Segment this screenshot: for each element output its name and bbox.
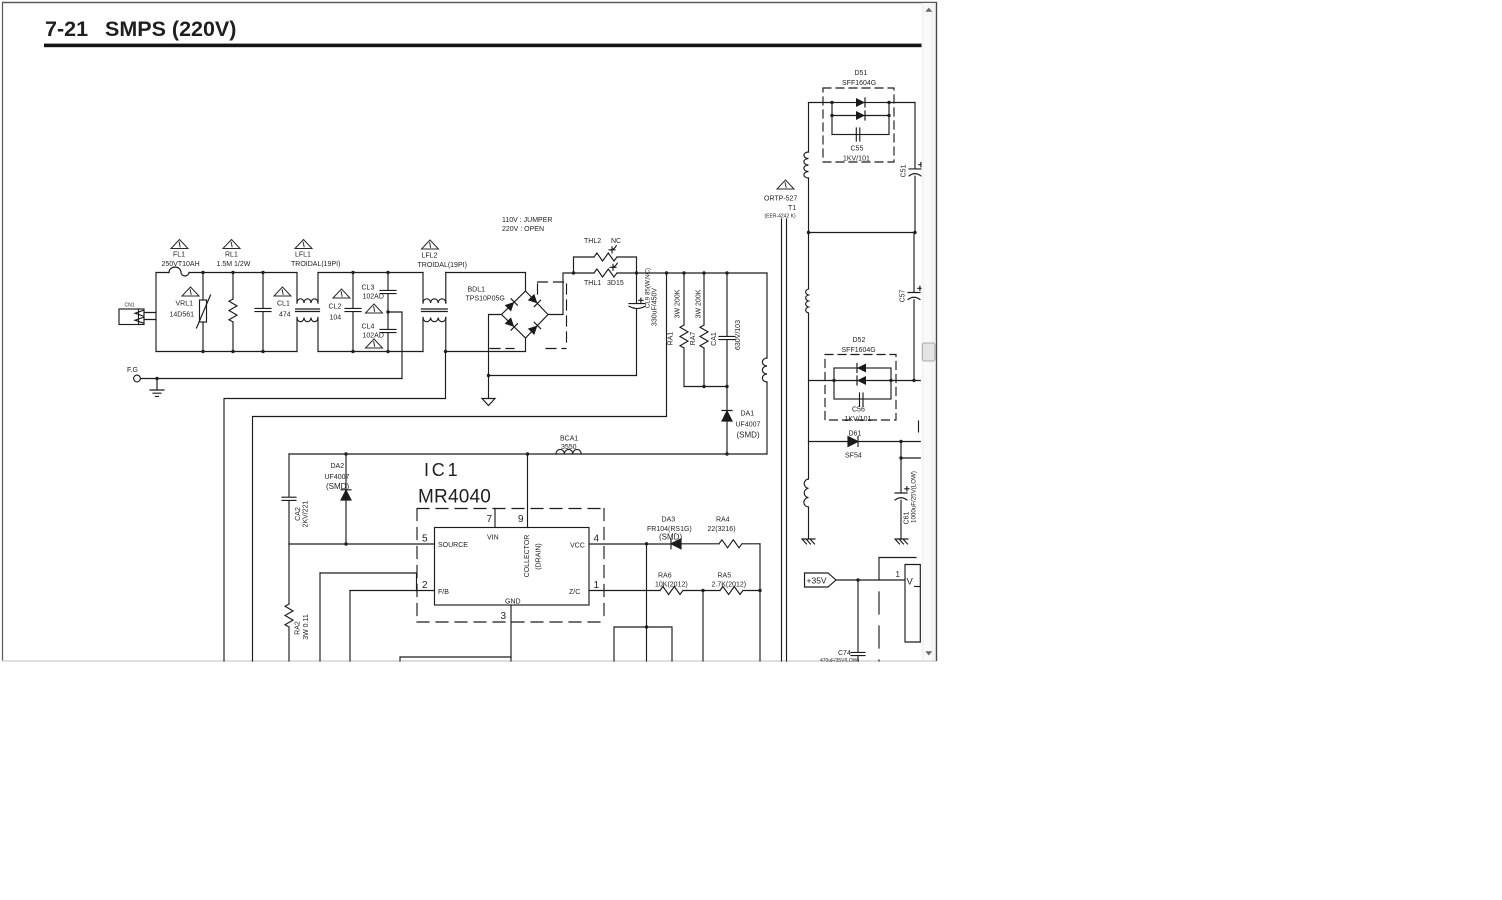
IC1 MR4040 body: [435, 528, 590, 606]
wire AC top to bridge: [525, 273, 527, 292]
svg-text:4: 4: [594, 534, 600, 545]
svg-text:BDL1: BDL1: [468, 287, 486, 294]
svg-text:9: 9: [518, 514, 524, 525]
diode pack D51 frame: [832, 103, 889, 135]
wire neutral return to bottom left: [224, 352, 446, 662]
thermistor THL2: [574, 257, 595, 273]
svg-text:SFF1604G: SFF1604G: [842, 80, 876, 87]
svg-text:630V/103: 630V/103: [735, 320, 742, 350]
scrollbar down arrow: [925, 651, 932, 655]
svg-text:CA1: CA1: [711, 332, 718, 346]
svg-text:CL1: CL1: [277, 301, 290, 308]
wire DC minus rail to CL9: [489, 375, 637, 377]
svg-text:10K(2012): 10K(2012): [655, 582, 688, 589]
flag +35V: [805, 573, 837, 587]
scrollbar thumb: [922, 343, 935, 361]
wire F/B upper branch: [320, 573, 417, 591]
svg-text:RA2: RA2: [295, 621, 302, 635]
connector box P805: [905, 565, 920, 643]
svg-text:3: 3: [501, 611, 507, 622]
svg-text:DA2: DA2: [331, 463, 345, 470]
pin 7 VIN stub: [494, 509, 496, 528]
diode DA2: [345, 454, 347, 490]
chassis ground C61: [895, 539, 908, 544]
svg-text:C51: C51: [901, 164, 908, 177]
warning triangle CL3: [366, 304, 383, 313]
dash mark right edge: [918, 421, 920, 432]
svg-text:BCA1: BCA1: [560, 436, 578, 443]
svg-text:THL1: THL1: [584, 280, 601, 287]
transformer T1 secondary winding 2: [808, 233, 810, 290]
svg-text:COLLECTOR: COLLECTOR: [524, 535, 531, 578]
svg-text:LFL2: LFL2: [422, 253, 438, 260]
svg-text:2KV/221: 2KV/221: [303, 500, 310, 527]
wire D51 output: [889, 102, 915, 104]
svg-text:C74: C74: [838, 650, 851, 657]
resistor RA1: [680, 273, 688, 387]
resistor RA7: [700, 273, 708, 387]
svg-text:F/B: F/B: [438, 589, 449, 596]
svg-text:102AD: 102AD: [363, 294, 384, 301]
svg-text:C57: C57: [900, 289, 907, 302]
wire RA6 node vertical: [702, 591, 704, 662]
svg-text:330uF/450V: 330uF/450V: [652, 288, 659, 326]
diode pack D52 dashed outline: [825, 355, 896, 421]
wire RA5 node vertical: [759, 591, 761, 662]
svg-text:CL3: CL3: [362, 285, 375, 292]
wire top AC bus right of LFL2: [446, 272, 526, 274]
svg-text:+35V: +35V: [807, 576, 827, 586]
wire bottom AC bus mid: [318, 351, 423, 353]
resistor RL1: [232, 273, 234, 300]
wire drain bus y454: [289, 453, 767, 455]
diode D61: [809, 441, 921, 443]
capacitor CA1: [719, 273, 735, 387]
svg-text:3W 0.11: 3W 0.11: [303, 614, 310, 640]
wire bottom cut stub: [400, 657, 511, 661]
svg-text:SF54: SF54: [845, 453, 862, 460]
diode D51b: [832, 115, 889, 117]
wire left input vertical: [155, 273, 157, 352]
svg-text:CA2: CA2: [295, 507, 302, 521]
svg-text:ORTP-527: ORTP-527: [764, 196, 797, 203]
svg-text:TROIDAL(19PI): TROIDAL(19PI): [418, 262, 467, 269]
wire bottom AC bus left: [156, 351, 297, 353]
transformer T1 primary winding: [762, 358, 767, 382]
dashed outline IC1: [417, 509, 604, 623]
capacitor C55: [856, 128, 860, 141]
capacitor C57 electrolytic: [908, 233, 920, 381]
warning triangle CL1: [274, 287, 291, 296]
ground earth at F.G: [150, 379, 164, 397]
svg-text:CL2: CL2: [329, 304, 342, 311]
wire DC minus return to bottom left: [253, 273, 667, 662]
diode D52a: [857, 364, 866, 373]
svg-text:5: 5: [422, 534, 428, 545]
svg-text:CL9 85(W,NC): CL9 85(W,NC): [645, 268, 652, 308]
pin 9 collector stub: [527, 454, 529, 528]
svg-text:3550: 3550: [561, 444, 577, 451]
pin underline mark: [915, 586, 920, 588]
bridge rectifier BDL1: [502, 291, 549, 338]
warning triangle LFL1: [295, 240, 312, 249]
scrollbar track: [922, 3, 937, 661]
svg-text:CL4: CL4: [362, 324, 375, 331]
svg-text:RA7: RA7: [690, 332, 697, 346]
svg-text:F.G: F.G: [127, 367, 138, 374]
wire DC plus bus: [574, 272, 768, 274]
capacitor CL4: [387, 312, 389, 329]
resistor RA2: [285, 544, 293, 661]
svg-text:UF4007: UF4007: [736, 422, 761, 429]
wire top AC bus left: [156, 272, 297, 274]
wire secondary mid rail: [809, 232, 916, 234]
svg-text:C61: C61: [904, 511, 911, 524]
svg-text:1.5M 1/2W: 1.5M 1/2W: [217, 261, 251, 268]
capacitor C61 electrolytic: [895, 458, 907, 539]
svg-text:VRL1: VRL1: [176, 301, 194, 308]
node dots AC bus at VRL1: [201, 271, 204, 274]
resistor RA4: [681, 540, 760, 548]
scrollbar up arrow: [925, 8, 932, 12]
diode DA3: [671, 539, 681, 549]
wire through D52: [809, 380, 921, 382]
warning triangle T1: [777, 180, 794, 189]
warning triangle CL2: [333, 289, 350, 298]
chassis ground T1 winding 3: [802, 539, 815, 544]
svg-text:22(3216): 22(3216): [708, 526, 736, 533]
capacitor CA2: [282, 454, 296, 544]
svg-text:104: 104: [330, 315, 342, 322]
diode D52b: [857, 376, 866, 385]
svg-text:RA4: RA4: [716, 517, 730, 524]
svg-text:D51: D51: [855, 70, 868, 77]
svg-text:NC: NC: [611, 238, 621, 245]
wire F/B verticals to bottom: [320, 573, 350, 661]
warning triangle VRL1: [182, 287, 199, 296]
capacitor CL1: [262, 273, 264, 309]
svg-text:C55: C55: [851, 146, 864, 153]
resistor RA6: [660, 587, 720, 595]
wire Z/C pin1: [589, 590, 660, 592]
svg-text:DA3: DA3: [662, 517, 676, 524]
warning triangle CL4: [366, 339, 383, 348]
warning triangle LFL2: [422, 240, 439, 249]
transformer T1 primary wire: [766, 273, 768, 358]
scrollbar right border: [936, 2, 938, 661]
svg-text:THL2: THL2: [584, 238, 601, 245]
SCROLLBAR: [922, 2, 937, 661]
svg-text:SOURCE: SOURCE: [438, 542, 468, 549]
wire top AC bus mid: [318, 272, 423, 274]
svg-text:FL1: FL1: [173, 252, 185, 259]
svg-text:7: 7: [487, 514, 493, 525]
capacitor CL9 electrolytic: [636, 273, 638, 303]
wire source line y544: [289, 543, 435, 545]
svg-text:(SMD): (SMD): [737, 431, 760, 440]
capacitor C51 electrolytic: [909, 103, 921, 233]
wire F/B pin2: [350, 590, 435, 592]
svg-text:3D15: 3D15: [607, 280, 624, 287]
svg-text:V: V: [907, 577, 914, 588]
svg-text:Z/C: Z/C: [569, 589, 580, 596]
wire F.G line: [141, 378, 403, 380]
svg-text:C56: C56: [852, 407, 865, 414]
dashed jumper box 110V: [490, 282, 567, 349]
svg-text:1KV/101: 1KV/101: [845, 416, 872, 423]
svg-text:MR4040: MR4040: [418, 487, 491, 508]
photocoupler box cut at bottom: [614, 627, 672, 661]
svg-text:D61: D61: [849, 431, 862, 438]
svg-text:GND: GND: [505, 599, 521, 606]
page title 7-21 SMPS (220V): [44, 17, 924, 47]
svg-text:474: 474: [279, 312, 291, 319]
thermistor THL1: [594, 269, 617, 277]
svg-text:DA1: DA1: [741, 411, 755, 418]
wire bridge minus output: [489, 315, 502, 376]
inductor BCA1 3550: [556, 449, 581, 454]
svg-text:7-21: 7-21: [45, 17, 88, 41]
svg-text:3W 200K: 3W 200K: [696, 289, 703, 318]
svg-text:D52: D52: [853, 337, 866, 344]
connector CN1: [119, 309, 144, 325]
wire DA3 node down to PC box: [646, 544, 648, 627]
diode DA1: [726, 387, 728, 411]
transformer T1 secondary winding 1: [804, 152, 809, 178]
svg-text:1: 1: [896, 570, 901, 579]
svg-text:1KV/101: 1KV/101: [843, 156, 870, 163]
svg-text:1: 1: [594, 580, 600, 591]
transformer T1 core: [782, 219, 787, 661]
wire CL3/CL4 midpoint to F.G line: [388, 312, 402, 379]
svg-text:220V : OPEN: 220V : OPEN: [502, 226, 544, 233]
svg-text:LFL1: LFL1: [295, 252, 311, 259]
capacitor C56: [860, 393, 864, 406]
capacitor CL2: [352, 273, 354, 309]
wire RA1 RA7 CA1 bottom: [684, 386, 727, 388]
svg-text:14D561: 14D561: [170, 312, 195, 319]
fuse FL1: [169, 267, 189, 276]
ground arrow under bridge: [482, 376, 495, 406]
capacitor C74: [851, 580, 865, 661]
svg-text:CN1: CN1: [125, 303, 135, 309]
wire bridge plus output: [548, 273, 574, 315]
svg-text:102AD: 102AD: [363, 333, 384, 340]
svg-text:UF4007: UF4007: [325, 474, 350, 481]
svg-text:(SMD): (SMD): [326, 482, 349, 491]
pin 3 GND stub: [510, 605, 512, 661]
wire VCC pin4: [589, 543, 671, 545]
svg-text:RA5: RA5: [718, 573, 732, 580]
svg-text:(EER-4242 K): (EER-4242 K): [765, 214, 796, 220]
diode pack D52 frame: [834, 368, 891, 399]
terminal F.G: [134, 375, 141, 382]
transformer T1 secondary winding 3: [808, 442, 810, 480]
wire AC bottom to bridge: [525, 338, 527, 352]
svg-text:TROIDAL(19PI): TROIDAL(19PI): [291, 261, 340, 268]
svg-text:SMPS (220V): SMPS (220V): [105, 17, 236, 41]
viewer window frame: [2, 2, 937, 661]
svg-text:RA1: RA1: [668, 332, 675, 346]
svg-text:RL1: RL1: [225, 252, 238, 259]
svg-text:TPS10P05G: TPS10P05G: [466, 296, 505, 303]
choke LFL2: [423, 273, 446, 304]
capacitor CL3: [387, 273, 389, 291]
svg-text:1000uF/25V(LOW): 1000uF/25V(LOW): [911, 471, 918, 523]
wire +35V to connector: [836, 579, 905, 581]
svg-text:T1: T1: [788, 205, 796, 212]
svg-text:2: 2: [422, 580, 428, 591]
wire C61 node to connector: [901, 442, 920, 459]
svg-text:(DRAIN): (DRAIN): [536, 543, 543, 569]
diode pack D51 dashed outline: [823, 88, 894, 162]
wire RA4 right vertical: [759, 544, 761, 591]
diode D51a: [856, 98, 865, 107]
svg-text:2.7K(2012): 2.7K(2012): [712, 582, 747, 589]
svg-text:SFF1604G: SFF1604G: [842, 347, 876, 354]
choke LFL1: [297, 273, 318, 304]
svg-text:3W 200K: 3W 200K: [675, 289, 682, 318]
wire bottom AC bus right of LFL2: [446, 351, 526, 353]
svg-text:VCC: VCC: [570, 543, 585, 550]
dashed secondary boundary: [878, 558, 880, 661]
svg-text:250VT10AH: 250VT10AH: [162, 261, 200, 268]
varistor VRL1: [202, 273, 204, 301]
transformer T1 secondary wire top: [808, 103, 810, 153]
svg-text:110V : JUMPER: 110V : JUMPER: [502, 217, 552, 224]
svg-text:(SMD): (SMD): [659, 533, 682, 542]
wire T1 to D51: [809, 102, 833, 104]
svg-text:IC1: IC1: [424, 460, 460, 480]
svg-text:VIN: VIN: [487, 535, 499, 542]
warning triangle RL1: [223, 240, 240, 249]
wire CN1 to input node: [144, 313, 156, 320]
warning triangle FL1: [171, 240, 188, 249]
svg-text:RA6: RA6: [658, 573, 672, 580]
resistor RA5: [720, 587, 760, 595]
